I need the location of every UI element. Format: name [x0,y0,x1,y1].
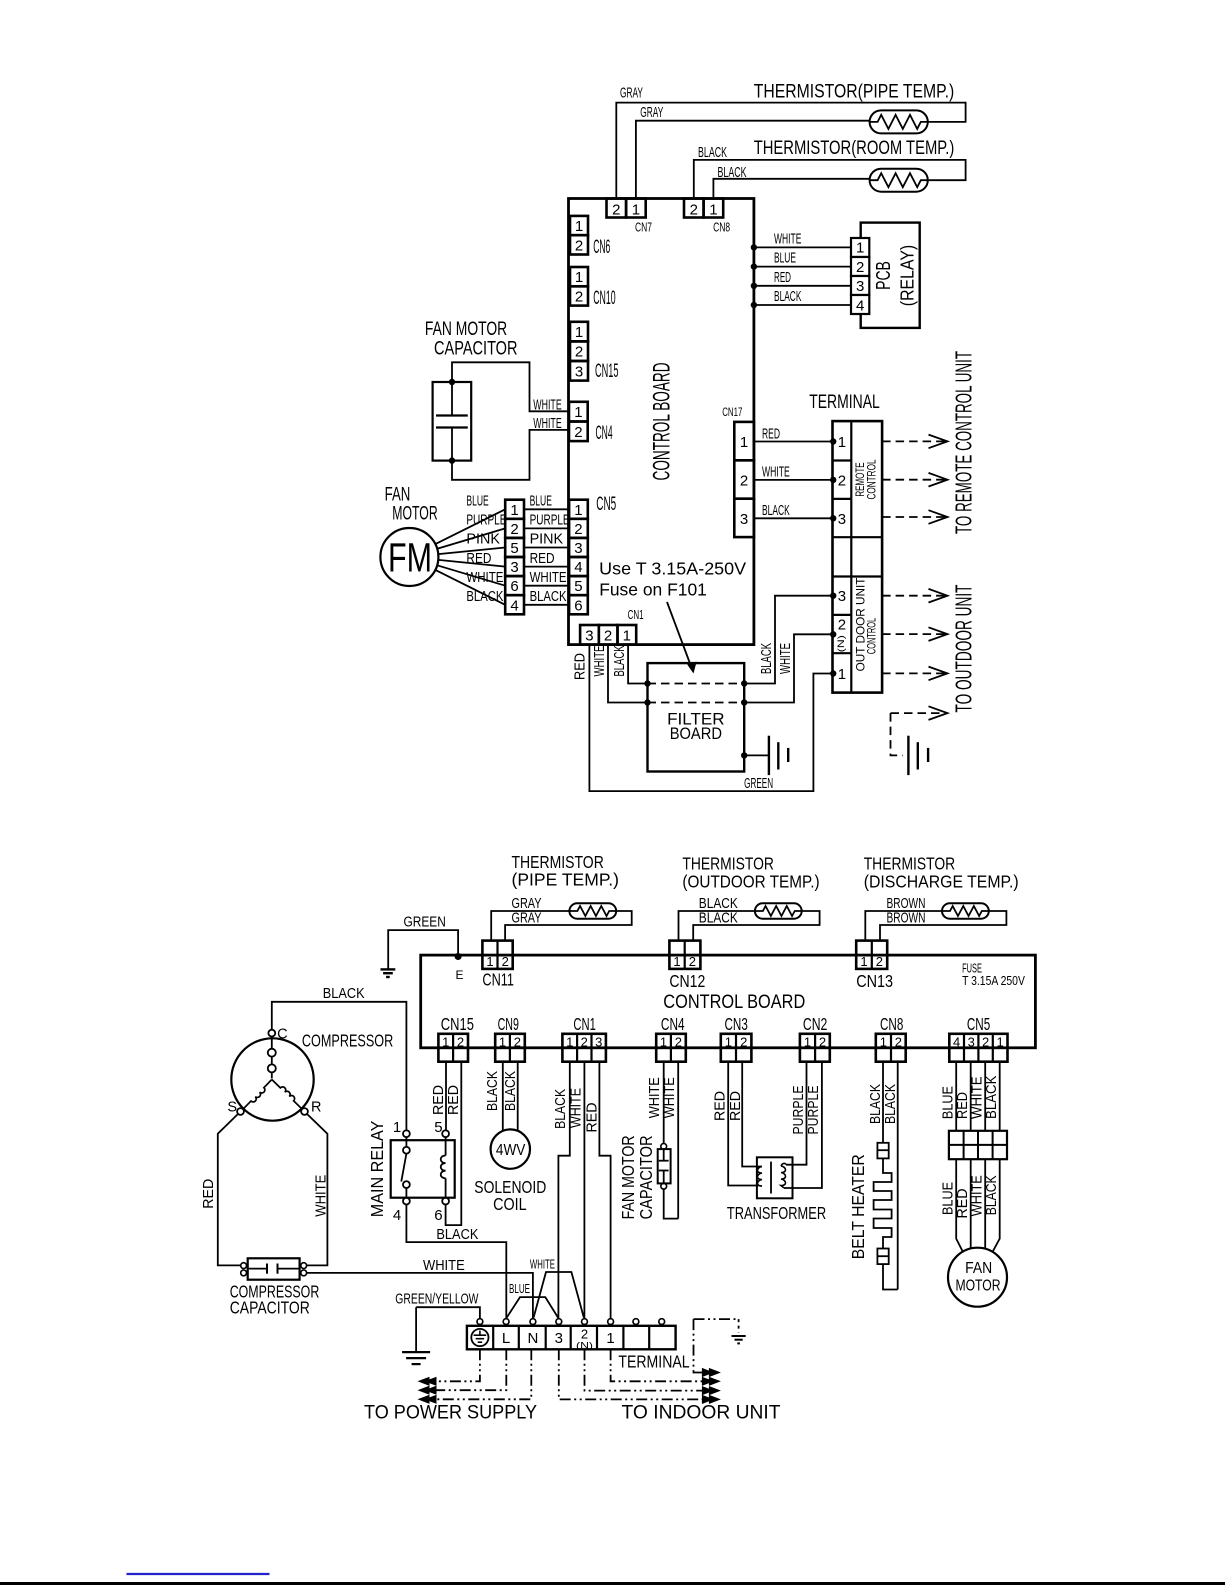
connector CN3 [721,1034,752,1062]
svg-text:2: 2 [502,954,509,969]
fan motor connector grid [949,1131,1007,1159]
compressor terminal R [301,1108,308,1115]
svg-text:PURPLE: PURPLE [791,1085,807,1134]
svg-text:CN12: CN12 [669,971,705,991]
svg-text:1: 1 [499,1034,506,1049]
svg-text:BLACK: BLACK [436,1227,478,1243]
svg-text:COMPRESSOR: COMPRESSOR [302,1031,393,1051]
svg-text:RED: RED [573,653,589,680]
svg-text:PURPLE: PURPLE [806,1085,822,1134]
svg-text:CN10: CN10 [593,288,615,309]
transformer core [770,1162,772,1194]
relay pin 1 [403,1130,410,1137]
svg-text:BLACK: BLACK [984,1175,1000,1215]
svg-text:RED: RED [446,1085,462,1115]
wire GREEN earth [388,930,458,969]
node E [455,953,462,960]
svg-text:BLACK: BLACK [759,643,775,674]
svg-text:TO POWER SUPPLY: TO POWER SUPPLY [364,1403,537,1424]
svg-text:L: L [502,1330,510,1347]
svg-text:RED: RED [728,1091,744,1121]
svg-text:CONTROL BOARD: CONTROL BOARD [663,992,805,1013]
svg-text:2: 2 [675,1034,682,1049]
svg-text:(N): (N) [836,635,847,652]
connector CN13 [856,941,887,969]
svg-text:PCB: PCB [873,261,895,290]
svg-text:E: E [456,968,464,982]
wire capacitor loop top [452,362,569,415]
svg-text:(PIPE TEMP.): (PIPE TEMP.) [512,870,620,890]
svg-text:WHITE: WHITE [592,645,608,676]
svg-text:Fuse on F101: Fuse on F101 [599,580,707,600]
svg-text:6: 6 [510,578,518,595]
svg-text:TO INDOOR UNIT: TO INDOOR UNIT [622,1403,781,1424]
compressor capacitor symbol [248,1268,267,1270]
wire compressor R white [307,1114,328,1266]
ground dashed indoor [907,736,909,775]
junction dots capacitor [449,379,455,385]
svg-text:3: 3 [740,511,748,528]
fuse note arrow [667,602,692,668]
svg-text:RED: RED [431,1085,447,1115]
svg-text:Use T 3.15A-250V: Use T 3.15A-250V [599,558,746,578]
fan motor connector 6-pin [505,500,524,519]
connector CN1 indoor [580,625,599,645]
svg-text:BROWN: BROWN [887,911,926,927]
belt heater connector 1 [877,1143,888,1159]
svg-text:PURPLE: PURPLE [530,513,570,529]
relay pin 4 [403,1198,410,1205]
connector CN15 outdoor [438,1034,468,1062]
svg-text:R: R [311,1100,321,1116]
connector CN2 [800,1034,830,1062]
svg-text:2: 2 [581,1327,588,1342]
wire CN8-2 black [694,160,966,199]
solenoid coil circle [491,1129,530,1168]
svg-text:GRAY: GRAY [512,911,542,927]
svg-text:TRANSFORMER: TRANSFORMER [727,1203,826,1223]
svg-text:C: C [277,1026,287,1042]
svg-text:BLUE: BLUE [466,494,488,510]
wire CN7-2 gray [616,103,965,199]
svg-text:1: 1 [486,954,493,969]
svg-text:TO REMOTE CONTROL UNIT: TO REMOTE CONTROL UNIT [951,351,977,534]
compressor winding left [243,1080,272,1110]
svg-text:WHITE: WHITE [530,570,567,586]
svg-text:TERMINAL: TERMINAL [618,1352,689,1372]
svg-text:CONTROL: CONTROL [865,459,879,499]
filter board box [648,663,745,771]
svg-text:BLACK: BLACK [762,503,790,519]
svg-text:1: 1 [575,324,583,341]
terminal block [833,421,883,692]
svg-text:CN8: CN8 [713,220,730,235]
svg-text:1: 1 [740,434,748,451]
svg-text:RED: RED [466,551,491,567]
wire capacitor white to N [307,1273,533,1319]
svg-text:3: 3 [838,511,846,528]
ground earth outdoor left [381,968,396,970]
wire white bridge [534,1272,584,1318]
wire CN3-1 red [728,1062,758,1186]
svg-text:FAN: FAN [385,484,411,505]
svg-text:GRAY: GRAY [620,86,643,102]
svg-text:(RELAY): (RELAY) [898,245,918,306]
wire CN1-2 white outdoor [583,1062,585,1319]
wire CN8-1 black [713,179,869,199]
svg-text:CN4: CN4 [661,1014,685,1034]
svg-text:CN15: CN15 [441,1014,474,1034]
connector CN5 [569,500,588,519]
svg-text:1: 1 [393,1119,401,1136]
svg-text:GRAY: GRAY [640,105,663,121]
svg-text:BLUE: BLUE [774,251,796,267]
svg-text:PINK: PINK [530,532,564,548]
svg-text:4: 4 [510,597,518,614]
svg-text:RED: RED [530,551,555,567]
svg-text:BLACK: BLACK [718,165,747,181]
wire blue bridge [505,1318,507,1321]
ground earth dashed outdoor [732,1335,746,1337]
svg-text:1: 1 [606,1330,614,1347]
terminal ground symbol [471,1329,488,1346]
svg-text:GREEN/YELLOW: GREEN/YELLOW [395,1292,478,1308]
wire CN13-2 brown [880,911,1006,941]
svg-text:1: 1 [856,240,864,257]
svg-text:WHITE: WHITE [762,465,790,481]
terminal wire dots [830,593,836,599]
transformer secondary coil [781,1166,786,1188]
wire CN4-2 white [677,1062,679,1219]
svg-text:CN17: CN17 [722,407,742,419]
svg-text:BOARD: BOARD [670,724,722,743]
svg-text:3: 3 [838,588,846,605]
transformer box [757,1157,793,1198]
wire relay 4 black [406,1205,506,1319]
svg-text:T 3.15A 250V: T 3.15A 250V [962,974,1025,988]
connector CN17 [734,422,754,460]
svg-text:THERMISTOR(ROOM TEMP.): THERMISTOR(ROOM TEMP.) [754,138,955,159]
dashed arrows to outdoor unit [882,595,946,597]
relay coil [445,1137,447,1155]
connector CN9 [495,1034,525,1062]
wire CN1-1 black [628,645,647,684]
svg-text:CN6: CN6 [593,237,610,258]
svg-text:4: 4 [856,297,864,314]
svg-text:WHITE: WHITE [662,1077,678,1118]
svg-text:1: 1 [575,269,583,286]
svg-text:BLACK: BLACK [883,1084,899,1124]
svg-text:GREEN: GREEN [744,776,773,792]
svg-text:1: 1 [860,954,867,969]
svg-text:2: 2 [575,237,583,254]
svg-text:WHITE: WHITE [423,1258,465,1274]
wires CN5 to connector grid [955,1062,957,1131]
svg-text:3: 3 [595,1034,602,1049]
compressor circle [231,1038,313,1120]
svg-text:4: 4 [574,559,582,576]
relay pin 6 [442,1198,449,1205]
connector CN4 outdoor [656,1034,686,1062]
svg-text:1: 1 [725,1034,732,1049]
svg-text:MOTOR: MOTOR [955,1277,1000,1294]
svg-text:BLACK: BLACK [699,911,738,927]
svg-text:BLUE: BLUE [530,494,552,510]
compressor terminal S [237,1108,244,1115]
wire CN9-1 black [502,1062,504,1131]
svg-text:4: 4 [953,1034,960,1049]
connector CN7 [607,199,627,218]
ground earth green/yellow [402,1351,430,1353]
wire CN1-3 red [589,645,832,792]
svg-text:3: 3 [555,1330,563,1347]
svg-text:CN3: CN3 [725,1014,748,1034]
wire CN9-2 black [517,1062,519,1131]
wires connector to CN5 [524,508,569,510]
svg-text:CAPACITOR: CAPACITOR [636,1135,656,1219]
svg-text:CN11: CN11 [482,969,514,989]
svg-text:(DISCHARGE TEMP.): (DISCHARGE TEMP.) [864,871,1019,891]
wire CN11-2 gray [505,911,632,941]
connector CN4 [569,402,588,422]
svg-text:BLACK: BLACK [553,1089,569,1129]
svg-text:CONTROL: CONTROL [865,618,879,655]
pcb relay box [861,223,920,328]
relay switch contacts [403,1147,410,1154]
svg-text:1: 1 [574,404,582,421]
belt heater connector 2 [877,1249,888,1265]
svg-text:CAPACITOR: CAPACITOR [434,339,518,360]
svg-text:RED: RED [713,1091,729,1121]
connector CN12 [669,941,700,969]
filter board dashed line 1 [648,683,745,685]
svg-text:1: 1 [575,218,583,235]
wire compressor S red [218,1114,241,1266]
svg-text:2: 2 [740,1034,747,1049]
svg-text:1: 1 [880,1034,887,1049]
svg-text:CN8: CN8 [880,1014,903,1034]
wire capacitor loop bottom [452,428,569,480]
wire green/yellow [416,1307,480,1318]
wire CN11-1 gray [491,911,569,941]
wire CN17-2 white [754,479,833,481]
svg-text:3: 3 [574,540,582,557]
svg-text:1: 1 [442,1034,449,1049]
svg-text:MOTOR: MOTOR [392,503,437,524]
connector CN1 outdoor [562,1034,606,1062]
svg-text:2: 2 [575,288,583,305]
svg-text:1: 1 [566,1034,573,1049]
wire CN4-1 white [663,1062,665,1144]
relay pin 5 [442,1130,449,1137]
dashdot to indoor 1 [611,1349,709,1381]
svg-text:1: 1 [510,502,518,519]
connector CN6 [570,216,588,235]
wire compressor C black [272,1002,407,1131]
thermistor (pipe temp.) element [870,110,928,133]
svg-text:BLACK: BLACK [485,1071,501,1111]
svg-text:WHITE: WHITE [569,1088,585,1128]
wires control board to pcb relay [754,246,851,248]
svg-text:WHITE: WHITE [313,1174,329,1216]
svg-text:2: 2 [876,954,883,969]
svg-text:2: 2 [581,1034,588,1049]
wires grid to fan motor [956,1159,963,1252]
svg-text:WHITE: WHITE [530,1257,555,1272]
svg-text:BLACK: BLACK [868,1084,884,1124]
svg-text:5: 5 [434,1119,442,1136]
svg-text:3: 3 [510,559,518,576]
indoor control board [569,199,754,645]
dashdot to power supply N [429,1349,531,1399]
svg-text:1: 1 [709,202,717,219]
thermistor (room temp.) element [870,169,928,192]
wire CN3-2 red [742,1062,762,1167]
compressor internal leads [268,1049,276,1057]
svg-text:N: N [527,1330,538,1347]
svg-text:2: 2 [895,1034,902,1049]
wire CN2-2 purple [784,1062,822,1188]
svg-text:2: 2 [574,424,582,441]
svg-text:(OUTDOOR TEMP.): (OUTDOOR TEMP.) [682,871,819,891]
connector CN11 [482,941,512,969]
connector CN8 [684,199,704,218]
wire capacitor bottom [664,1189,679,1219]
dashdot ground to indoor [694,1318,739,1320]
svg-text:S: S [227,1100,237,1116]
svg-text:BLUE: BLUE [941,1086,957,1119]
thermistor pipe outdoor [569,903,616,919]
connector CN5 outdoor [949,1034,1007,1062]
svg-text:BLUE: BLUE [509,1281,530,1296]
svg-text:FAN: FAN [965,1260,992,1277]
dashdot to power supply L [429,1349,506,1390]
thermistor outdoor temp element [755,903,802,919]
svg-text:RED: RED [585,1103,601,1133]
wire CN1-2 white [608,645,648,703]
svg-text:FM: FM [388,535,432,581]
wire belt heater bottom [883,1264,898,1289]
svg-text:BLUE: BLUE [941,1182,957,1215]
wire filter to terminal 2 white [744,634,832,702]
wire CN13-1 brown [865,911,943,941]
terminal block outdoor [467,1326,676,1350]
fan motor FM circle [380,528,438,586]
wire filter board ground green [744,754,769,756]
svg-text:CN15: CN15 [595,361,619,382]
svg-text:CN13: CN13 [856,971,893,991]
dashed arrow ground indoor [891,712,947,714]
svg-text:BLACK: BLACK [503,1071,519,1111]
svg-text:BLACK: BLACK [612,645,628,676]
svg-text:2: 2 [514,1034,521,1049]
compressor capacitor box [248,1258,300,1279]
belt heater element [874,1158,892,1248]
transformer primary coil [758,1167,763,1187]
fan motor capacitor box [433,382,472,461]
wire CN15-2 to relay 6 red [446,1062,462,1225]
svg-text:2: 2 [510,521,518,538]
svg-text:3: 3 [856,278,864,295]
svg-text:5: 5 [574,578,582,595]
svg-text:3: 3 [968,1034,975,1049]
svg-text:2: 2 [604,628,612,645]
svg-text:BLACK: BLACK [530,589,567,605]
svg-text:2: 2 [575,344,583,361]
svg-text:MAIN RELAY: MAIN RELAY [367,1120,387,1217]
wires fan motor to connector [435,509,505,544]
wire filter to terminal 3 black [744,596,832,684]
wire CN8-1 black heater [882,1062,884,1143]
svg-text:2: 2 [838,617,846,634]
svg-text:2: 2 [574,521,582,538]
svg-text:PINK: PINK [466,532,500,548]
svg-text:CN5: CN5 [967,1014,990,1034]
wire CN15-1 to relay 5 red [445,1062,447,1131]
svg-text:1: 1 [804,1034,811,1049]
svg-text:FAN MOTOR: FAN MOTOR [618,1135,638,1219]
svg-text:2: 2 [740,472,748,489]
svg-text:WHITE: WHITE [466,570,503,586]
svg-text:TO OUTDOOR UNIT: TO OUTDOOR UNIT [951,585,977,713]
main relay box [391,1140,455,1198]
dashdot to indoor 2 [585,1349,710,1390]
footer blue line [127,1573,270,1575]
ground filter board [768,736,770,775]
compressor capacitor terminals [241,1263,247,1269]
svg-text:RED: RED [762,426,780,442]
svg-text:WHITE: WHITE [533,398,562,414]
svg-text:WHITE: WHITE [969,1175,985,1216]
capacitor plates [436,414,468,416]
outdoor fan motor circle [948,1248,1007,1307]
svg-text:2: 2 [819,1034,826,1049]
wire CN1-3 red outdoor [599,1062,610,1319]
svg-text:2: 2 [838,472,846,489]
svg-text:BLACK: BLACK [774,289,802,305]
dashdot to indoor 3 [559,1349,709,1399]
wire CN17-1 red [754,441,833,443]
svg-text:BELT HEATER: BELT HEATER [848,1154,868,1259]
svg-text:COIL: COIL [493,1194,527,1214]
svg-text:2: 2 [689,954,696,969]
wire CN2-1 purple [786,1062,807,1165]
svg-text:6: 6 [434,1207,442,1224]
compressor winding right [272,1080,302,1110]
svg-text:1: 1 [632,202,640,219]
svg-text:WHITE: WHITE [533,416,562,432]
svg-text:WHITE: WHITE [647,1077,663,1118]
compressor terminal C [268,1030,275,1037]
svg-text:CN4: CN4 [596,423,613,444]
svg-text:CN7: CN7 [635,220,652,235]
svg-text:3: 3 [585,628,593,645]
svg-text:CN1: CN1 [628,607,644,622]
terminal circles [477,1319,483,1325]
connector CN8 outdoor [876,1034,906,1062]
svg-text:RED: RED [201,1179,217,1209]
svg-text:4WV: 4WV [496,1142,526,1159]
svg-text:6: 6 [574,597,582,614]
dashdot to power supply gnd [429,1349,480,1381]
svg-text:4: 4 [393,1207,401,1224]
thermistor discharge element [942,903,989,919]
svg-text:1: 1 [574,502,582,519]
wire CN1-1 black outdoor [558,1062,569,1319]
svg-text:WHITE: WHITE [774,231,802,247]
svg-text:WHITE: WHITE [969,1076,985,1119]
svg-text:CN1: CN1 [573,1014,595,1034]
